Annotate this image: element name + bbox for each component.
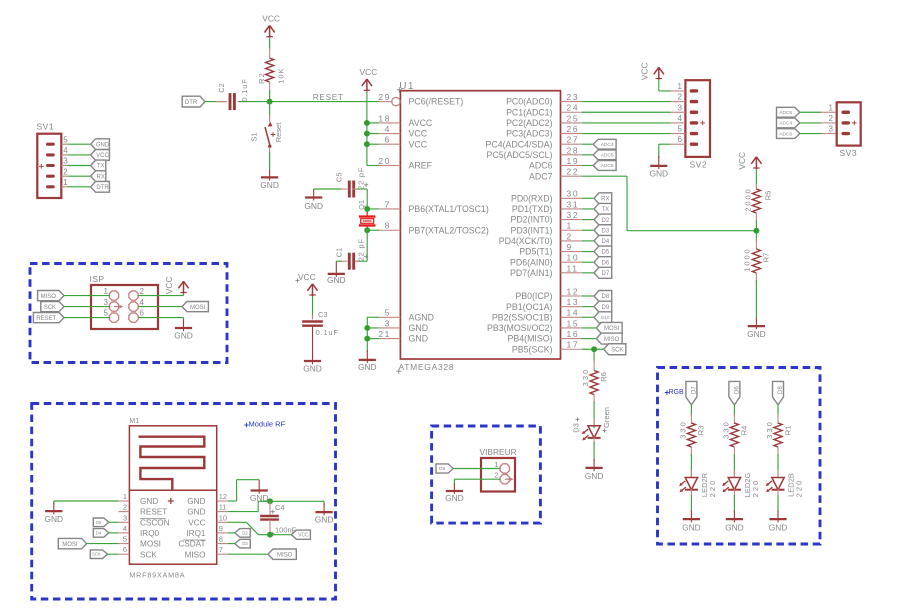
node GND junction pin21 (364, 336, 370, 342)
svg-text:220: 220 (795, 479, 804, 498)
svg-text:GND: GND (44, 514, 63, 524)
connector SV3 (829, 102, 861, 158)
flag ADC6 (593, 161, 616, 171)
node divider junction (753, 228, 759, 234)
svg-text:U1: U1 (399, 81, 415, 92)
capacitor C4 100nF (260, 501, 297, 536)
svg-text:ADC6: ADC6 (601, 163, 614, 169)
wire PC3 to SV2 pin5 (582, 133, 671, 135)
svg-text:6: 6 (140, 309, 145, 318)
svg-text:IRQ0: IRQ0 (140, 529, 160, 538)
svg-text:D6: D6 (734, 386, 740, 394)
svg-text:PD3(INT1): PD3(INT1) (510, 225, 552, 235)
resistor R6 330 (581, 360, 608, 403)
svg-text:VCC: VCC (360, 67, 378, 77)
ground (ISP) (174, 320, 193, 341)
wire U1 to flag ADC5 (582, 154, 593, 156)
svg-text:28: 28 (567, 145, 580, 155)
wire U1 to flag MOSI (582, 327, 597, 329)
svg-text:D8: D8 (778, 386, 784, 394)
wire SCK to M1 pin6 (108, 553, 119, 555)
flag D9 (VIBREUR) (436, 464, 453, 473)
svg-text:19: 19 (567, 156, 580, 166)
wire VCC to C3 (312, 296, 314, 319)
svg-text:VCC: VCC (409, 139, 428, 149)
svg-text:ADC5: ADC5 (779, 110, 792, 116)
svg-text:D3: D3 (242, 541, 248, 546)
svg-text:ADC6: ADC6 (779, 131, 792, 137)
M1 pin 2 RESET (118, 503, 167, 517)
svg-text:M1: M1 (129, 418, 139, 425)
wire LED2R to GND (690, 495, 692, 512)
flag TX (594, 203, 612, 214)
flag DTR (reset net) (182, 96, 205, 107)
svg-text:2: 2 (494, 471, 498, 480)
wire D5 to M1 pin3 (109, 521, 119, 523)
flag ADC5 (SV3) (777, 107, 800, 117)
svg-text:27: 27 (567, 135, 580, 145)
svg-text:VCC: VCC (409, 129, 428, 139)
wire SV2 pin6 to GND (659, 144, 671, 158)
wire U1 to flag D3 (582, 229, 594, 231)
U1 pin 15 PB3(MOSI/OC2) (487, 318, 582, 333)
svg-text:ADC5: ADC5 (601, 153, 614, 159)
U1 pin 32 PD2(INT0) (510, 210, 581, 225)
svg-text:1: 1 (829, 103, 834, 112)
ground (LED2G) (725, 511, 744, 533)
U1 pin 2 PD4(XCK/T0) (499, 231, 582, 246)
svg-text:5: 5 (104, 309, 109, 318)
svg-text:220: 220 (751, 479, 760, 498)
svg-text:DTR: DTR (185, 100, 198, 106)
svg-text:D2: D2 (602, 218, 610, 224)
svg-text:R5: R5 (764, 191, 773, 201)
U1 pin 6 VCC (379, 135, 427, 150)
svg-text:PC3(ADC3): PC3(ADC3) (506, 129, 553, 139)
svg-text:330: 330 (678, 420, 687, 439)
U1 pin 29 PC6(/RESET) (378, 92, 463, 107)
svg-text:C3: C3 (318, 310, 328, 319)
svg-text:CSCON: CSCON (140, 518, 170, 527)
svg-text:2: 2 (63, 167, 68, 176)
svg-text:VIBREUR: VIBREUR (480, 447, 517, 457)
svg-text:PC0(ADC0): PC0(ADC0) (506, 97, 553, 107)
wire D9 to VIBREUR pin1 (453, 468, 500, 470)
svg-text:D8: D8 (602, 294, 610, 300)
flag RX (SV1 pin2) (91, 171, 106, 182)
flag RESET (ISP) (33, 313, 64, 323)
U1 pin 11 PD7(AIN1) (510, 263, 582, 278)
svg-text:D4: D4 (96, 530, 102, 535)
U1 pin 10 PD6(AIN0) (510, 253, 582, 268)
svg-text:MOSI: MOSI (604, 326, 620, 332)
svg-text:C1: C1 (335, 248, 344, 258)
ground (module right) (315, 504, 334, 525)
node AVCC junction (364, 120, 370, 126)
wire RESET net to U1 pin29 (270, 93, 380, 102)
wire XTAL2 to U1 pin8 (367, 229, 379, 231)
svg-text:GND: GND (585, 471, 604, 481)
svg-text:GND: GND (725, 522, 744, 532)
svg-text:PD4(XCK/T0): PD4(XCK/T0) (499, 236, 553, 246)
svg-text:1: 1 (494, 460, 498, 469)
connector SV1 (37, 122, 69, 199)
svg-text:D4: D4 (602, 239, 610, 245)
svg-text:15: 15 (567, 318, 580, 328)
svg-text:0.1uF: 0.1uF (240, 78, 249, 101)
flag VCC (M1) (291, 530, 310, 539)
svg-text:PC2(ADC2): PC2(ADC2) (506, 118, 553, 128)
wire C2 to reset junction (239, 101, 270, 103)
module M1 MRF89XAM8A (129, 418, 216, 579)
svg-text:D5: D5 (96, 520, 102, 525)
M1 pin 3 CSCON (118, 513, 169, 527)
IC U1 ATMEGA328 (396, 81, 560, 374)
frame RGB (dashed) (658, 368, 821, 545)
flag MISO (596, 333, 622, 344)
svg-text:4: 4 (63, 146, 68, 155)
svg-text:R1: R1 (783, 426, 792, 436)
flag SCK (ISP) (41, 302, 64, 312)
wire LED2G to GND (733, 495, 735, 512)
flag D2 (594, 214, 612, 225)
wire R2 to junction (269, 90, 271, 102)
svg-text:12: 12 (219, 492, 227, 501)
svg-text:PB6(XTAL1/TOSC1): PB6(XTAL1/TOSC1) (409, 204, 489, 214)
M1 pin 12 GND (187, 492, 227, 506)
ground (D3) (585, 459, 604, 481)
ground (LED2B) (769, 511, 788, 533)
svg-text:6: 6 (123, 545, 127, 554)
svg-text:22: 22 (567, 167, 580, 177)
wire VCC rail (367, 91, 379, 165)
wire D3 to M1 pin8 (228, 543, 235, 545)
wire C5 to XTAL1 (357, 189, 367, 209)
svg-text:1: 1 (63, 178, 68, 187)
svg-text:2: 2 (829, 114, 834, 123)
flag MOSI (ISP) (182, 302, 208, 312)
power VCC (U1 supply) (360, 67, 378, 91)
flag D4 (M1 IRQ0) (93, 529, 109, 538)
wire junction to GND right (270, 501, 324, 505)
svg-text:GND: GND (682, 522, 701, 532)
svg-text:4: 4 (385, 124, 391, 134)
wire U1 to flag D6 (582, 261, 594, 263)
flag D6 (594, 257, 612, 268)
ground (S1) (260, 169, 279, 190)
U1 pin 4 VCC (379, 124, 427, 139)
wire LED2B to GND (777, 495, 779, 512)
wire U1 to flag D7 (582, 272, 594, 274)
svg-text:3: 3 (678, 103, 683, 112)
wire R6 to LED D3 (593, 401, 595, 428)
svg-text:PB1(OC1A): PB1(OC1A) (506, 302, 553, 312)
wire U1 to flag D5 (582, 251, 594, 253)
svg-text:GND: GND (315, 515, 334, 525)
svg-text:PC1(ADC1): PC1(ADC1) (506, 107, 553, 117)
svg-text:11: 11 (567, 263, 579, 273)
svg-text:RX: RX (97, 174, 105, 180)
wire PC1 to SV2 pin3 (582, 111, 671, 113)
svg-text:AGND: AGND (409, 312, 434, 322)
connector SV2 (678, 80, 711, 169)
svg-text:10: 10 (219, 513, 227, 522)
svg-text:0.1uF: 0.1uF (316, 328, 339, 337)
LED D3 Green (572, 407, 611, 444)
svg-text:D6: D6 (602, 260, 610, 266)
flag D8 (594, 291, 612, 302)
svg-text:GND: GND (96, 142, 110, 148)
wire M1 pin10 to C4 junction (228, 522, 270, 534)
svg-text:ADC7: ADC7 (529, 171, 553, 181)
flag D3 (M1 CSDAT) (235, 539, 251, 548)
svg-text:11: 11 (219, 503, 227, 512)
svg-text:10: 10 (567, 253, 580, 263)
flag D9 (594, 301, 612, 312)
flag D7 (594, 267, 612, 278)
svg-text:MRF89XAM8A: MRF89XAM8A (129, 570, 185, 579)
svg-text:7: 7 (219, 545, 223, 554)
flag MISO (ISP) (38, 291, 64, 301)
node GND junction pin3 (364, 325, 370, 331)
svg-text:4: 4 (123, 524, 127, 533)
svg-text:R3: R3 (697, 426, 706, 436)
flag SCK (604, 344, 626, 355)
svg-text:SV2: SV2 (690, 160, 708, 170)
svg-text:GND: GND (187, 508, 205, 517)
svg-text:MISO: MISO (277, 552, 293, 558)
svg-text:GND: GND (769, 522, 788, 532)
flag D8 (RGB) (773, 381, 785, 405)
svg-text:30: 30 (567, 189, 580, 199)
svg-text:16: 16 (567, 329, 580, 339)
svg-text:VCC: VCC (188, 518, 205, 527)
frame VIBREUR (dashed) (432, 426, 541, 523)
header ISP (90, 274, 159, 329)
svg-text:17: 17 (567, 340, 580, 350)
svg-text:22 pF: 22 pF (356, 167, 365, 190)
svg-text:330: 330 (765, 420, 774, 439)
wire M1 pin7 to MISO (228, 553, 268, 555)
svg-text:4: 4 (140, 298, 145, 307)
label RGB (665, 389, 684, 396)
wire VCC to R2 (269, 38, 271, 50)
power VCC (SV2) (639, 62, 663, 80)
svg-text:PD2(INT0): PD2(INT0) (510, 215, 552, 225)
svg-text:ADC4: ADC4 (601, 142, 614, 148)
flag ADC6 (SV3) (777, 129, 800, 139)
wire R5 to junction (755, 220, 757, 231)
flag D5 (594, 246, 612, 257)
svg-text:6: 6 (385, 135, 391, 145)
U1 pin 9 PD5(T1) (519, 242, 582, 257)
svg-text:R2: R2 (257, 72, 266, 84)
flag MOSI (M1) (58, 538, 86, 548)
svg-text:GND: GND (358, 362, 377, 372)
svg-text:2: 2 (567, 231, 573, 241)
U1 pin 24 PC1(ADC1) (506, 103, 582, 118)
svg-text:1: 1 (123, 492, 127, 501)
capacitor C1 22pF (335, 238, 369, 270)
svg-text:3: 3 (829, 125, 834, 134)
U1 pin 17 PB5(SCK) (512, 340, 582, 355)
wire D8 to R1 (777, 405, 779, 416)
flag D7 (RGB) (686, 381, 698, 405)
svg-text:PC6(/RESET): PC6(/RESET) (409, 97, 464, 107)
wire D2 to M1 pin9 (228, 532, 235, 534)
svg-text:18: 18 (378, 113, 391, 123)
U1 pin 8 PB7(XTAL2/TOSC2) (379, 221, 489, 236)
svg-text:330: 330 (581, 368, 590, 387)
U1 pin 13 PB1(OC1A) (506, 297, 582, 312)
svg-text:SV3: SV3 (840, 148, 858, 158)
svg-text:SCK: SCK (92, 552, 101, 557)
svg-text:C4: C4 (275, 503, 285, 512)
node VCC junction pin6 (364, 141, 370, 147)
svg-text:Green: Green (602, 407, 611, 428)
svg-text:PB3(MOSI/OC2): PB3(MOSI/OC2) (487, 323, 553, 333)
svg-text:330: 330 (721, 420, 730, 439)
wire R1 to LED2B (777, 454, 779, 478)
svg-text:C5: C5 (335, 173, 344, 183)
flag D5 (M1 CSCON) (93, 518, 109, 527)
U1 pin 16 PB4(MISO) (508, 329, 582, 344)
svg-text:D9: D9 (602, 305, 610, 311)
svg-text:MOSI: MOSI (62, 542, 78, 548)
svg-text:PB0(ICP): PB0(ICP) (515, 291, 552, 301)
flag DTR (SV1 pin1) (91, 181, 110, 192)
wire PC0 to SV2 pin2 (582, 101, 671, 103)
wire M1 pin1 to GND (54, 501, 119, 504)
svg-text:D10: D10 (601, 315, 610, 320)
frame ISP (dashed) (30, 264, 227, 363)
U1 pin 25 PC2(ADC2) (506, 113, 582, 128)
node VCC junction pin4 (364, 131, 370, 137)
svg-text:Module RF: Module RF (249, 420, 286, 429)
svg-text:PB4(MISO): PB4(MISO) (508, 334, 553, 344)
M1 pin 10 VCC (188, 513, 227, 527)
wire U1 to flag TX (582, 208, 594, 210)
svg-text:GND: GND (304, 201, 323, 211)
U1 pin 21 GND (378, 329, 428, 344)
svg-text:PD7(AIN1): PD7(AIN1) (510, 268, 553, 278)
svg-text:PC4(ADC4/SDA): PC4(ADC4/SDA) (486, 139, 553, 149)
wire D7 to R3 (690, 405, 692, 416)
LED LED2B 220 (766, 470, 804, 497)
svg-text:23: 23 (567, 92, 580, 102)
wire D4 to M1 pin4 (109, 532, 119, 534)
U1 pin 7 PB6(XTAL1/TOSC1) (379, 199, 489, 214)
flag MOSI (596, 322, 622, 333)
svg-text:AVCC: AVCC (409, 118, 433, 128)
svg-text:1: 1 (567, 221, 573, 231)
M1 pin 4 IRQ0 (118, 524, 159, 538)
svg-text:3: 3 (104, 298, 109, 307)
svg-text:RESET: RESET (140, 508, 167, 517)
power VCC (R5) (737, 152, 761, 170)
wire ISP pin2 to VCC (138, 294, 184, 296)
svg-text:R7: R7 (761, 253, 770, 263)
svg-text:5: 5 (63, 135, 68, 144)
wire D6 to R4 (733, 405, 735, 416)
power VCC (C3) (296, 272, 318, 296)
svg-text:220: 220 (708, 479, 717, 498)
svg-text:8: 8 (385, 221, 391, 231)
svg-text:VCC: VCC (737, 152, 747, 170)
flag VCC (SV1 pin4) (91, 150, 110, 161)
wire S1 to GND (269, 152, 271, 170)
svg-text:D3: D3 (572, 423, 581, 433)
svg-text:CSDAT: CSDAT (178, 540, 205, 549)
svg-text:GND: GND (747, 329, 766, 339)
wire XTAL1 to U1 pin7 (367, 208, 379, 210)
flag RX (594, 193, 612, 204)
svg-text:SCK: SCK (44, 305, 56, 311)
svg-text:ADC4: ADC4 (779, 121, 792, 127)
ground (LED2R) (682, 511, 701, 533)
ground (VIBREUR) (445, 484, 464, 503)
svg-text:2000: 2000 (744, 187, 753, 211)
svg-text:PC5(ADC5/SCL): PC5(ADC5/SCL) (487, 150, 553, 160)
LED LED2R 220 (679, 470, 717, 497)
wire VIBREUR pin2 to GND (454, 479, 500, 485)
svg-text:SCK: SCK (140, 550, 157, 559)
svg-text:2: 2 (123, 503, 127, 512)
M1 pin 8 CSDAT (178, 535, 227, 549)
wire pin17 junction down to R6 (593, 349, 595, 362)
svg-text:RGB: RGB (669, 389, 685, 396)
svg-text:GND: GND (303, 363, 322, 373)
ground (C3) (303, 326, 322, 374)
wire U1 to flag ADC6 (582, 165, 593, 167)
svg-text:VCC: VCC (298, 533, 309, 539)
svg-text:14: 14 (567, 308, 580, 318)
U1 pin 12 PB0(ICP) (515, 286, 581, 301)
wires ISP left (64, 296, 110, 318)
wire M1 pin12 to GND (228, 480, 260, 501)
svg-text:GND: GND (445, 493, 464, 503)
wire U1 pin17 to SCK junction (582, 348, 604, 350)
svg-text:PD0(RXD): PD0(RXD) (511, 193, 553, 203)
svg-text:ADC6: ADC6 (529, 161, 553, 171)
svg-text:6: 6 (678, 135, 683, 144)
svg-text:MISO: MISO (41, 294, 57, 300)
U1 pin 27 PC4(ADC4/SDA) (486, 135, 582, 150)
svg-text:7: 7 (385, 199, 391, 209)
svg-text:D9: D9 (439, 466, 445, 472)
flag ADC4 (SV3) (777, 118, 800, 128)
U1 pin 31 PD1(TXD) (512, 199, 582, 214)
svg-text:D3: D3 (602, 228, 610, 234)
SV2 pin stubs (671, 91, 686, 144)
svg-text:32: 32 (567, 210, 580, 220)
resistor R7 1000 (742, 231, 770, 282)
ground (M1 pin12) (250, 480, 269, 503)
U1 pin 26 PC3(ADC3) (506, 124, 582, 139)
svg-text:ATMEGA328: ATMEGA328 (399, 362, 455, 372)
U1 pin 19 ADC6 (529, 156, 582, 171)
flag D3 (594, 225, 612, 236)
svg-text:R6: R6 (599, 372, 608, 382)
wire U1 to flag D9 (582, 306, 594, 308)
M1 pin 11 GND (187, 503, 227, 517)
svg-text:SV1: SV1 (37, 122, 55, 132)
flag D6 (RGB) (729, 381, 741, 405)
svg-text:RESET: RESET (36, 316, 56, 322)
resistor R5 2000 (744, 169, 773, 222)
svg-text:MISO: MISO (604, 337, 620, 343)
wire U1 to flag D2 (582, 219, 594, 221)
